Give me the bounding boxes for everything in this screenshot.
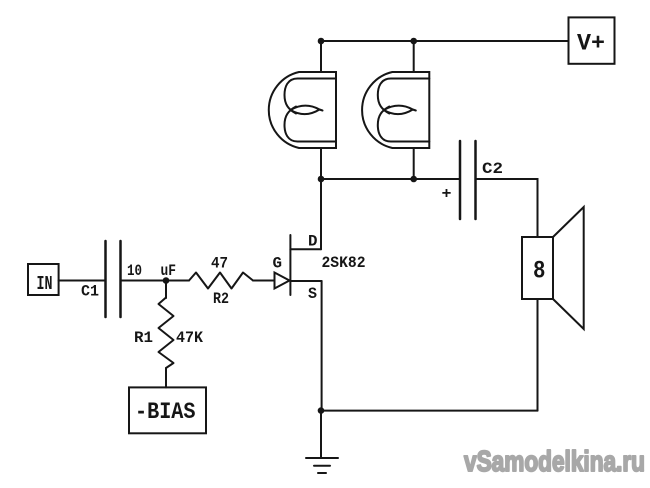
svg-text:R2: R2 [213, 290, 229, 308]
resistor R1 [159, 298, 174, 369]
svg-text:R1: R1 [134, 329, 153, 347]
svg-text:IN: IN [37, 273, 53, 295]
node junction ground [318, 407, 325, 414]
wire node to R1 [165, 281, 167, 299]
svg-text:+: + [442, 185, 452, 203]
wire R2 to gate [253, 280, 275, 282]
node junction lamp1 top [318, 38, 325, 45]
lamp LP1 [269, 72, 336, 148]
wire R1 to bias box [165, 368, 167, 387]
wire IN to C1 [59, 280, 106, 282]
svg-text:10: 10 [127, 262, 142, 280]
svg-text:V+: V+ [577, 31, 605, 57]
transistor Q1 2SK82 [275, 235, 322, 295]
wire lamp2 bottom lead [413, 148, 415, 179]
svg-text:S: S [308, 285, 317, 303]
ground [306, 411, 338, 473]
svg-text:G: G [273, 255, 283, 273]
capacitor C2 [460, 141, 476, 219]
box V+ supply [569, 17, 615, 63]
wire lamp1 top lead [320, 41, 322, 72]
svg-text:C2: C2 [482, 160, 503, 178]
wire lamp2 top lead [413, 41, 415, 72]
wire C2 to speaker [476, 179, 538, 237]
svg-text:2SK82: 2SK82 [322, 254, 366, 272]
capacitor C1 [106, 241, 121, 317]
node input junction [163, 277, 170, 284]
node junction lamp2 top [410, 38, 417, 45]
wire V+ rail top [321, 40, 569, 42]
svg-text:C1: C1 [81, 283, 99, 301]
box -BIAS [129, 387, 206, 433]
svg-text:-BIAS: -BIAS [135, 399, 196, 425]
wire lamp1 bottom lead [320, 148, 322, 179]
node junction lamp2 bottom [410, 176, 417, 183]
node junction lamp1 bottom [318, 176, 325, 183]
svg-text:uF: uF [161, 262, 177, 280]
svg-text:D: D [308, 233, 318, 251]
wire drain rail horizontal [321, 178, 460, 180]
svg-text:47: 47 [211, 255, 228, 273]
svg-text:47K: 47K [176, 329, 203, 347]
speaker LS1 [522, 207, 584, 329]
box IN port [28, 264, 59, 295]
wire bottom rail [321, 410, 538, 412]
wire C1 to node [121, 280, 190, 282]
wire speaker bottom [537, 299, 539, 411]
svg-text:vSamodelkina.ru: vSamodelkina.ru [464, 446, 645, 478]
wire drain vertical [320, 179, 322, 249]
lamp LP2 [362, 72, 429, 148]
resistor R2 [189, 273, 253, 289]
svg-text:8: 8 [533, 257, 546, 286]
wire source vertical [321, 281, 323, 411]
